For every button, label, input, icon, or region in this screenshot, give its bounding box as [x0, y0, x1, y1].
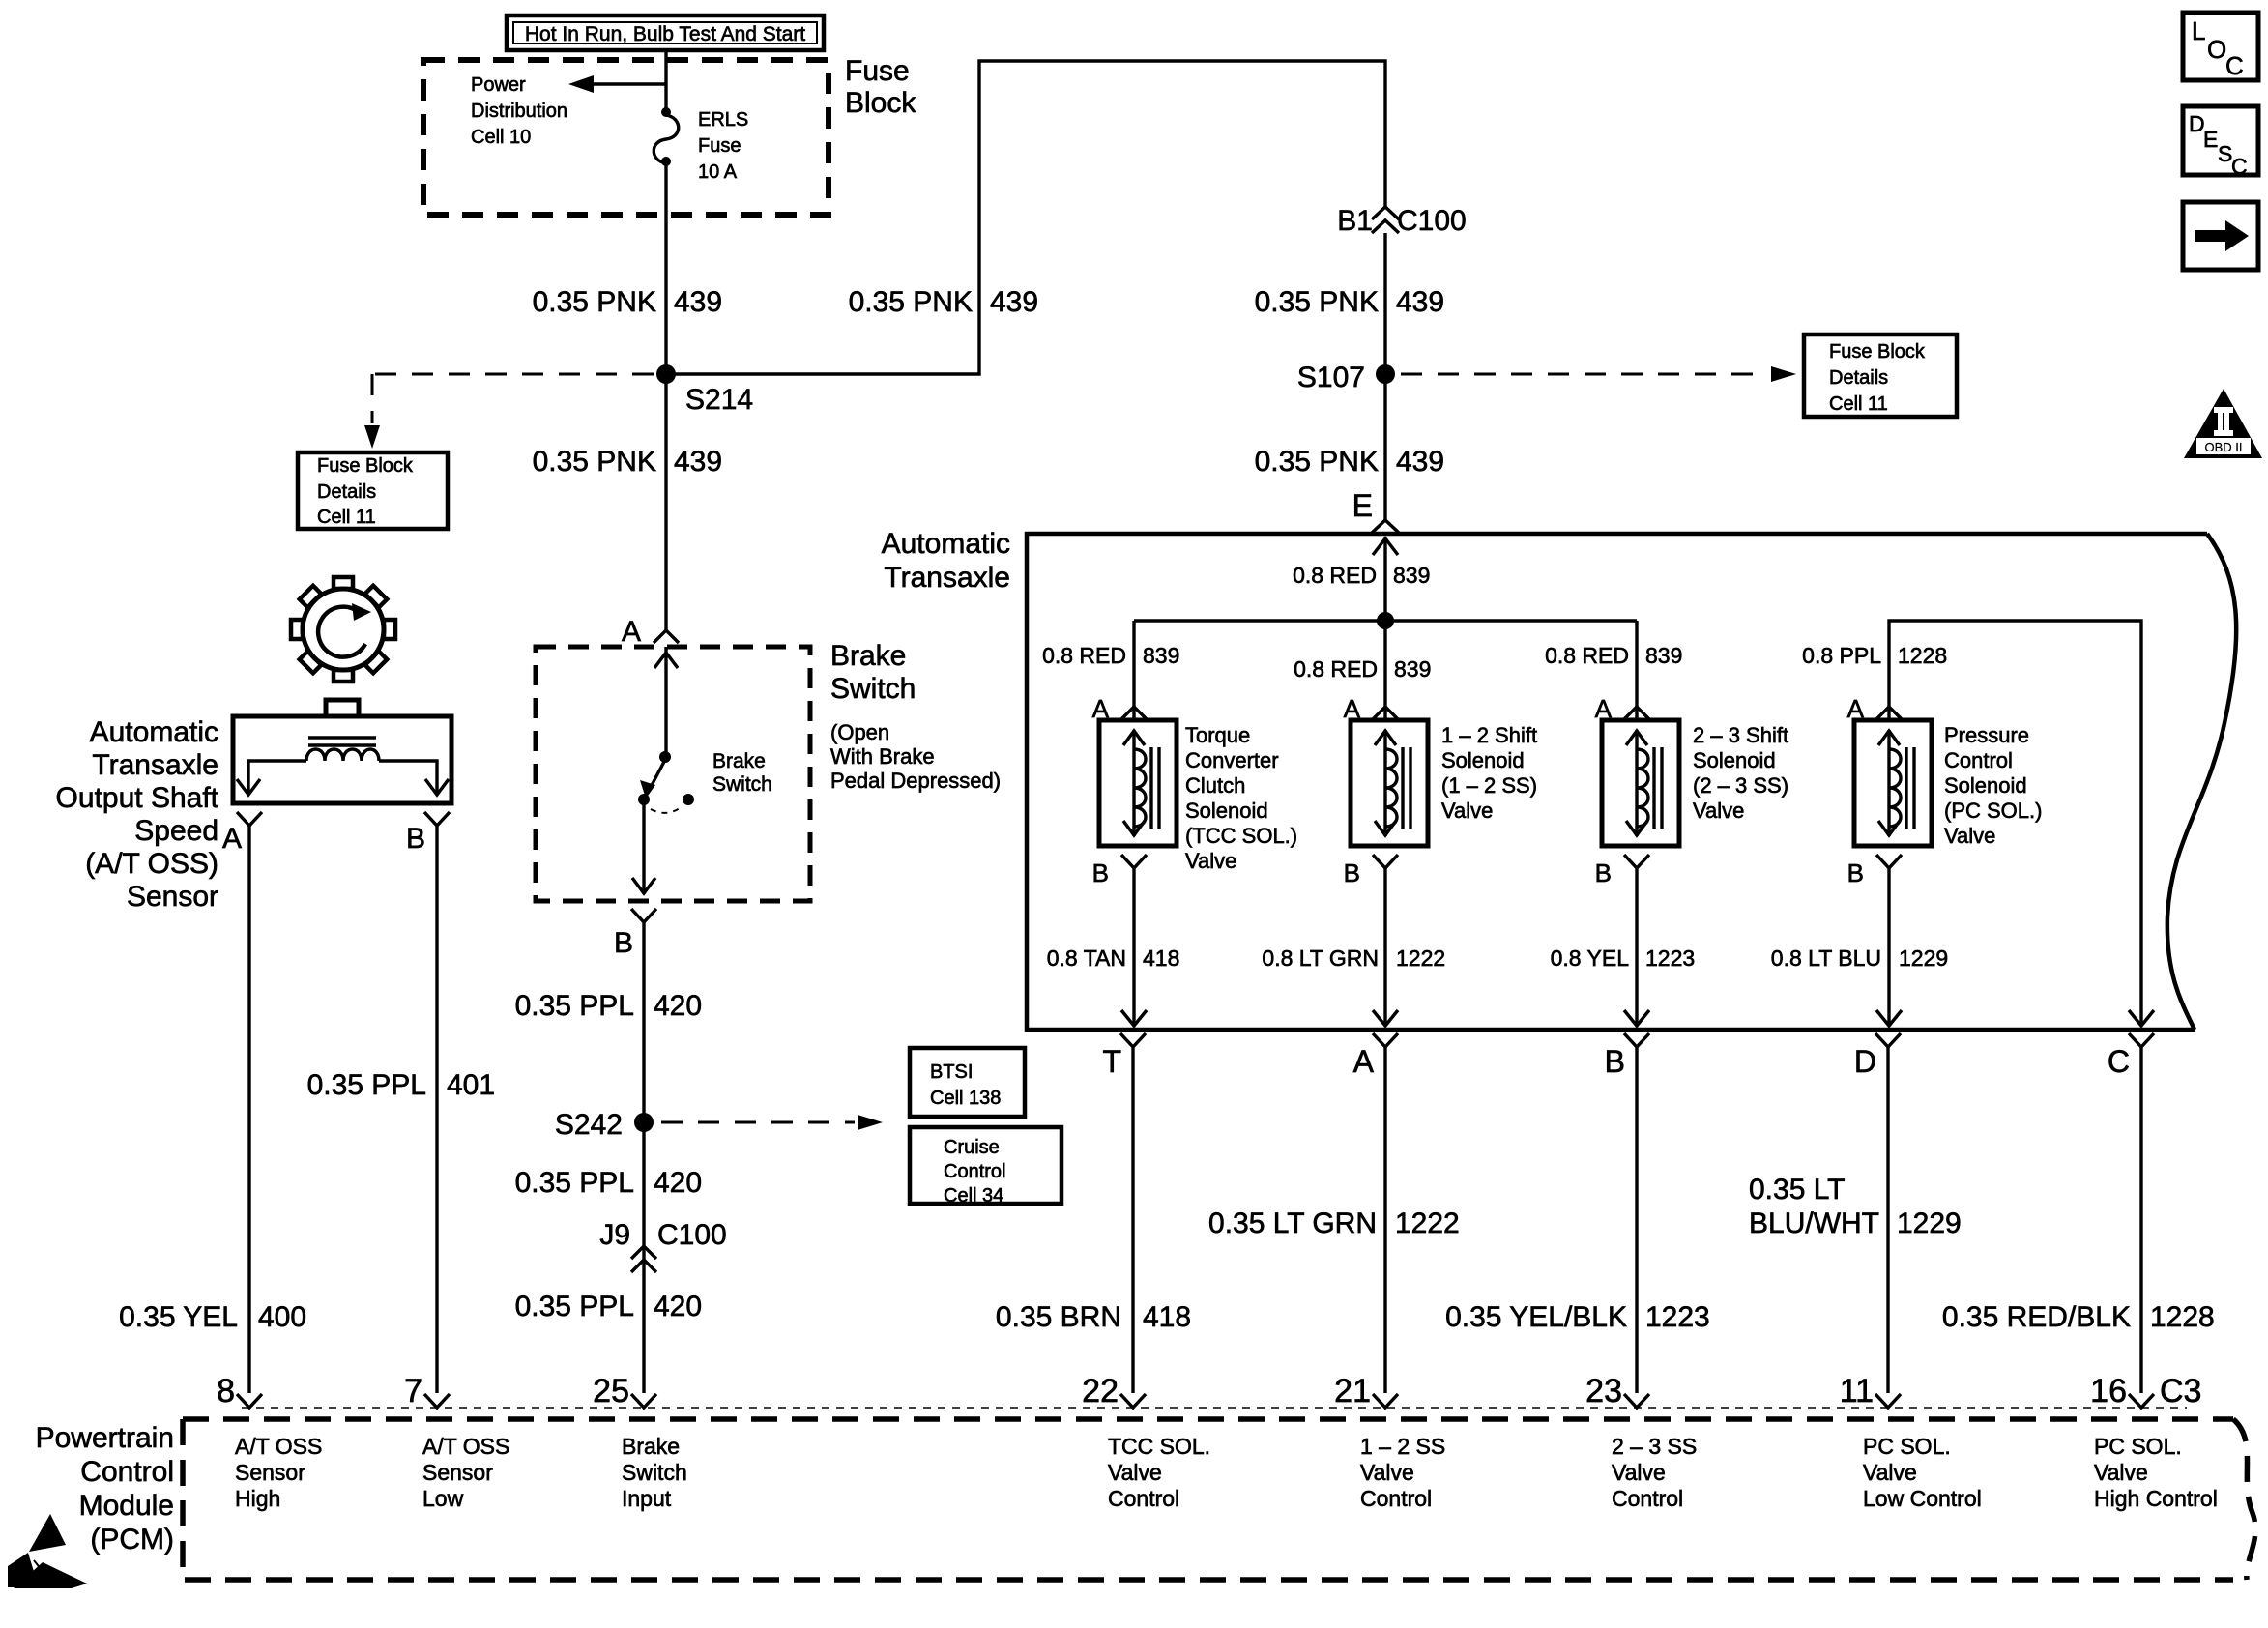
- svg-text:Block: Block: [845, 87, 916, 119]
- label: 0.8 RED 839 (TCC drop): [1042, 643, 1179, 668]
- svg-text:0.35 PNK: 0.35 PNK: [533, 446, 656, 478]
- connector: PCM pin 25: [593, 1373, 656, 1410]
- svg-text:0.35 BRN: 0.35 BRN: [996, 1301, 1121, 1333]
- svg-text:0.35 YEL: 0.35 YEL: [119, 1301, 238, 1333]
- svg-text:High Control: High Control: [2094, 1486, 2218, 1511]
- label: 0.35 PNK 439 (left, upper): [533, 286, 722, 318]
- connector: case pin D: [1854, 1033, 1901, 1079]
- connector: case pin A: [1353, 1033, 1398, 1079]
- svg-text:420: 420: [654, 1291, 702, 1323]
- connector: PCM pin 22: [1082, 1373, 1146, 1410]
- wire: 0.35 PNK 439 from S107 to transaxle pin E: [1383, 374, 1386, 520]
- automatic transaxle case (box with torn right edge): [1027, 534, 2236, 1030]
- label: 0.8 YEL 1223: [1551, 945, 1696, 971]
- label: Brake Switch: [830, 640, 916, 705]
- wire: C to PCM pin 16: [2139, 1047, 2142, 1393]
- label: 0.35 PNK 439 (branch): [849, 286, 1038, 318]
- label: ERLS Fuse 10 A: [698, 109, 748, 183]
- label: Automatic Transaxle Output Shaft Speed (A/T OSS) Sensor: [56, 716, 219, 913]
- wire: arrow into case pin C: [2129, 1010, 2154, 1026]
- label: 0.35 RED/BLK 1228: [1942, 1301, 2215, 1333]
- svg-text:Clutch: Clutch: [1185, 773, 1245, 798]
- node S107 (splice): [1297, 362, 1395, 393]
- connector: brake switch pin A: [622, 616, 679, 648]
- svg-text:A: A: [222, 823, 242, 855]
- svg-text:Transaxle: Transaxle: [884, 562, 1010, 594]
- label: Brake Switch (inner): [712, 750, 772, 796]
- connector pin E of automatic transaxle: [1352, 488, 1399, 533]
- svg-text:ERLS: ERLS: [698, 109, 748, 131]
- svg-text:B: B: [406, 823, 425, 855]
- svg-text:418: 418: [1143, 1301, 1191, 1333]
- label: 0.8 RED 839 (feed): [1293, 563, 1430, 588]
- svg-text:839: 839: [1143, 643, 1179, 668]
- switch: brake switch contacts: [638, 751, 694, 813]
- svg-text:0.35 PNK: 0.35 PNK: [1255, 446, 1379, 478]
- svg-text:Valve: Valve: [1944, 824, 1995, 848]
- svg-text:2 – 3 SS: 2 – 3 SS: [1612, 1434, 1697, 1459]
- connector: PCM pin 11: [1840, 1373, 1901, 1410]
- svg-text:Cell 34: Cell 34: [944, 1185, 1003, 1206]
- wire: drop to 2-3 shift solenoid pin A: [1635, 621, 1638, 719]
- wire: 0.35 PNK 439 from C100 to S107: [1383, 233, 1386, 374]
- svg-text:O: O: [2207, 35, 2226, 64]
- svg-text:0.8 PPL: 0.8 PPL: [1802, 643, 1881, 668]
- svg-text:S107: S107: [1297, 362, 1365, 393]
- wire: into brake switch with arrow: [654, 647, 678, 762]
- svg-text:Switch: Switch: [622, 1460, 687, 1485]
- label: pin 22 function TCC SOL. Valve Control: [1108, 1434, 1210, 1511]
- svg-text:439: 439: [674, 286, 722, 318]
- svg-text:Fuse Block: Fuse Block: [317, 455, 414, 477]
- label: 0.35 LT GRN 1222: [1208, 1207, 1460, 1239]
- svg-text:Control: Control: [1360, 1486, 1432, 1511]
- connector C100 pin B1 (double chevron): [1337, 205, 1466, 237]
- svg-text:1 – 2 Shift: 1 – 2 Shift: [1441, 723, 1537, 747]
- svg-text:Valve: Valve: [1612, 1460, 1666, 1485]
- icon: forward arrow box: [2183, 202, 2258, 270]
- label box: BTSI Cell 138: [910, 1048, 1025, 1117]
- svg-text:400: 400: [258, 1301, 306, 1333]
- label: 0.8 PPL 1228 (PC drop): [1802, 643, 1947, 668]
- svg-text:D: D: [1854, 1044, 1876, 1079]
- dashed reference arrow from S242 to BTSI / Cruise: [661, 1115, 883, 1130]
- svg-text:Control: Control: [1108, 1486, 1179, 1511]
- svg-text:C100: C100: [657, 1219, 727, 1251]
- label: 0.35 PPL 420 (middle): [515, 1167, 703, 1199]
- label: 0.35 BRN 418: [996, 1301, 1191, 1333]
- svg-text:Cell 11: Cell 11: [317, 507, 376, 528]
- svg-text:0.8 YEL: 0.8 YEL: [1551, 945, 1630, 971]
- svg-text:Output Shaft: Output Shaft: [56, 782, 219, 814]
- icon: LOC box: [2183, 13, 2258, 80]
- wire: 0.35 YEL 400 sensor A to PCM pin 8: [247, 826, 250, 1393]
- label box: Fuse Block Details Cell 11 (right): [1804, 334, 1957, 417]
- svg-text:Solenoid: Solenoid: [1693, 748, 1776, 772]
- svg-text:0.35 PNK: 0.35 PNK: [533, 286, 656, 318]
- svg-text:C100: C100: [1397, 205, 1467, 237]
- svg-text:0.8 LT BLU: 0.8 LT BLU: [1771, 945, 1881, 971]
- node S242 (splice): [555, 1109, 654, 1141]
- svg-text:C3: C3: [2160, 1373, 2201, 1410]
- label: 0.35 PPL 401: [307, 1069, 496, 1101]
- wire: harness interface line at PCM: [242, 1407, 2187, 1409]
- svg-text:Solenoid: Solenoid: [1944, 773, 2027, 798]
- svg-text:Solenoid: Solenoid: [1441, 748, 1525, 772]
- label: pin 16 function PC SOL. Valve High Control: [2094, 1434, 2218, 1511]
- brake switch housing (dashed box): [536, 647, 810, 901]
- svg-text:Valve: Valve: [1693, 799, 1744, 823]
- wire: 0.8 YEL 1223 solenoid to case pin B: [1624, 868, 1649, 1026]
- svg-text:OBD II: OBD II: [2204, 440, 2242, 454]
- svg-text:8: 8: [217, 1373, 235, 1410]
- svg-text:0.8 TAN: 0.8 TAN: [1047, 945, 1126, 971]
- connector: PCM pin 21: [1334, 1373, 1398, 1410]
- wire: drop to 1-2 shift solenoid pin A: [1383, 621, 1386, 719]
- svg-text:1229: 1229: [1899, 945, 1948, 971]
- node S214 (splice): [656, 364, 753, 416]
- svg-text:16: 16: [2090, 1373, 2127, 1410]
- svg-text:420: 420: [654, 990, 702, 1022]
- label box: Cruise Control Cell 34: [910, 1127, 1061, 1206]
- svg-text:0.8 LT GRN: 0.8 LT GRN: [1262, 945, 1379, 971]
- wire: feed from Hot bus into fuse: [664, 50, 667, 111]
- svg-text:439: 439: [1396, 446, 1444, 478]
- svg-text:B: B: [1605, 1044, 1625, 1079]
- svg-text:Automatic: Automatic: [882, 528, 1010, 560]
- icon: ESD static-sensitive symbol: [8, 1514, 87, 1588]
- wire: 0.35 PPL 420 brake switch to PCM pin 25: [642, 922, 645, 1393]
- svg-text:Speed: Speed: [134, 815, 218, 847]
- label: pin 11 function PC SOL. Valve Low Control: [1863, 1434, 1982, 1511]
- svg-text:TCC SOL.: TCC SOL.: [1108, 1434, 1210, 1459]
- wire: 0.35 PNK 439 from fuse to S214: [664, 161, 667, 374]
- svg-text:Valve: Valve: [2094, 1460, 2148, 1485]
- svg-text:Valve: Valve: [1360, 1460, 1414, 1485]
- svg-text:Valve: Valve: [1185, 849, 1236, 873]
- svg-text:401: 401: [447, 1069, 495, 1101]
- svg-text:Fuse: Fuse: [698, 135, 741, 157]
- svg-text:(1 – 2 SS): (1 – 2 SS): [1441, 773, 1537, 798]
- dashed reference arrow from S214 to Fuse Block Details: [364, 374, 654, 449]
- svg-text:C: C: [2225, 51, 2244, 80]
- svg-text:Automatic: Automatic: [90, 716, 218, 748]
- label: 0.8 LT GRN 1222: [1262, 945, 1445, 971]
- svg-text:25: 25: [593, 1373, 629, 1410]
- wire: drop to TCC solenoid pin A: [1132, 621, 1135, 719]
- svg-text:T: T: [1102, 1044, 1121, 1079]
- icon: OBD II symbol: [2184, 389, 2262, 458]
- svg-text:Torque: Torque: [1185, 723, 1250, 747]
- svg-text:439: 439: [990, 286, 1038, 318]
- connector: PCM pin 8: [217, 1373, 262, 1410]
- svg-text:Control: Control: [944, 1161, 1005, 1182]
- svg-text:0.8 RED: 0.8 RED: [1294, 656, 1378, 682]
- label: TCC solenoid name: [1185, 723, 1297, 873]
- svg-text:Details: Details: [317, 481, 376, 503]
- label box: Hot In Run, Bulb Test And Start: [507, 15, 824, 50]
- svg-text:Valve: Valve: [1108, 1460, 1162, 1485]
- svg-text:839: 839: [1645, 643, 1682, 668]
- svg-text:7: 7: [404, 1373, 422, 1410]
- wire: D to PCM pin 11: [1886, 1047, 1889, 1393]
- svg-text:Switch: Switch: [830, 673, 916, 705]
- wire: 0.35 PPL 401 sensor B to PCM pin 7: [435, 826, 438, 1393]
- solenoid: 2-3 Shift Solenoid (2-3 SS) Valve: [1595, 694, 1679, 887]
- svg-text:B: B: [1847, 858, 1864, 887]
- svg-text:0.8 RED: 0.8 RED: [1042, 643, 1126, 668]
- svg-text:C: C: [2231, 154, 2248, 179]
- svg-text:1223: 1223: [1645, 1301, 1710, 1333]
- svg-text:2 – 3 Shift: 2 – 3 Shift: [1693, 723, 1788, 747]
- svg-text:1228: 1228: [1898, 643, 1947, 668]
- label: Power Distribution Cell 10: [471, 74, 567, 148]
- svg-text:L: L: [2192, 16, 2205, 45]
- label: PC solenoid name: [1944, 723, 2042, 848]
- label: Fuse Block: [845, 55, 916, 119]
- label: pin 7 function A/T OSS Sensor Low: [422, 1434, 509, 1511]
- wire: T to PCM pin 22: [1131, 1047, 1134, 1393]
- svg-text:439: 439: [674, 446, 722, 478]
- svg-text:Cell 138: Cell 138: [930, 1088, 1001, 1109]
- wire: 0.8 PPL 1228 loop from PC solenoid pin A to case pin C: [1889, 621, 2141, 1026]
- svg-text:(PC SOL.): (PC SOL.): [1944, 799, 2042, 823]
- svg-text:Valve: Valve: [1863, 1460, 1917, 1485]
- connector: sensor pin B: [406, 812, 450, 855]
- svg-text:23: 23: [1585, 1373, 1622, 1410]
- connector C100 pin J9 (double chevron): [599, 1219, 726, 1272]
- connector: brake switch pin B: [614, 909, 656, 959]
- label: (Open With Brake Pedal Depressed): [830, 720, 1001, 793]
- svg-text:High: High: [235, 1486, 280, 1511]
- svg-text:0.35 PNK: 0.35 PNK: [849, 286, 973, 318]
- svg-text:839: 839: [1394, 656, 1431, 682]
- svg-text:J9: J9: [599, 1219, 630, 1251]
- connector: PCM pin 16 / C3: [2090, 1373, 2201, 1410]
- solenoid: Torque Converter Clutch Solenoid (TCC SOL.) Valve: [1092, 694, 1177, 887]
- svg-text:A/T OSS: A/T OSS: [235, 1434, 322, 1459]
- label: 0.35 YEL/BLK 1223: [1445, 1301, 1710, 1333]
- svg-text:Transaxle: Transaxle: [92, 749, 218, 781]
- svg-text:Pedal Depressed): Pedal Depressed): [830, 769, 1001, 793]
- svg-text:PC SOL.: PC SOL.: [2094, 1434, 2182, 1459]
- svg-text:0.8 RED: 0.8 RED: [1293, 563, 1377, 588]
- svg-text:B1: B1: [1337, 205, 1373, 237]
- svg-text:B: B: [1344, 858, 1360, 887]
- connector: PCM pin 7: [404, 1373, 450, 1410]
- svg-text:A: A: [622, 616, 641, 648]
- wire: A to PCM pin 21: [1383, 1047, 1386, 1393]
- svg-text:Brake: Brake: [830, 640, 906, 672]
- svg-text:0.35 LT GRN: 0.35 LT GRN: [1208, 1207, 1377, 1239]
- svg-text:Control: Control: [80, 1456, 174, 1488]
- svg-text:1222: 1222: [1395, 1207, 1460, 1239]
- svg-text:1223: 1223: [1645, 945, 1695, 971]
- svg-text:Brake: Brake: [622, 1434, 680, 1459]
- label: 0.35 PPL 420 (lower): [515, 1291, 703, 1323]
- label: pin 21 function 1-2 SS Valve Control: [1360, 1434, 1445, 1511]
- svg-text:B: B: [1092, 858, 1109, 887]
- svg-text:(PCM): (PCM): [90, 1524, 174, 1555]
- svg-text:21: 21: [1334, 1373, 1371, 1410]
- label: 0.8 RED 839 (2-3 drop): [1545, 643, 1682, 668]
- svg-text:Distribution: Distribution: [471, 101, 567, 122]
- label: Powertrain Control Module (PCM): [36, 1422, 174, 1555]
- svg-text:0.8 RED: 0.8 RED: [1545, 643, 1629, 668]
- svg-text:With Brake: With Brake: [830, 744, 935, 769]
- svg-text:Sensor: Sensor: [127, 881, 218, 913]
- label: pin 25 function Brake Switch Input: [622, 1434, 687, 1511]
- label: 0.35 PNK 439 (right, lower): [1255, 446, 1444, 478]
- icon: reluctor gear wheel: [291, 577, 395, 682]
- dashed reference arrow from S107 to Fuse Block Details: [1401, 366, 1796, 382]
- svg-text:(A/T OSS): (A/T OSS): [85, 848, 218, 880]
- svg-text:BLU/WHT: BLU/WHT: [1749, 1207, 1879, 1239]
- label: pin 8 function A/T OSS Sensor High: [235, 1434, 322, 1511]
- svg-text:Control: Control: [1944, 748, 2013, 772]
- svg-text:A: A: [1353, 1044, 1375, 1079]
- svg-text:0.35 RED/BLK: 0.35 RED/BLK: [1942, 1301, 2131, 1333]
- svg-text:BTSI: BTSI: [930, 1061, 973, 1083]
- svg-text:0.35 PPL: 0.35 PPL: [515, 1291, 634, 1323]
- label: 0.35 PNK 439 (left, lower): [533, 446, 722, 478]
- wire: red distribution bus: [1134, 619, 1637, 622]
- svg-text:Cruise: Cruise: [944, 1137, 1000, 1158]
- svg-text:Solenoid: Solenoid: [1185, 799, 1268, 823]
- svg-text:Low: Low: [422, 1486, 464, 1511]
- label: 0.8 LT BLU 1229: [1771, 945, 1948, 971]
- wire: 0.8 RED 839 feed inside transaxle with arrow: [1373, 537, 1398, 621]
- svg-text:Power: Power: [471, 74, 526, 96]
- connector: sensor pin A: [222, 812, 262, 855]
- solenoid: Pressure Control Solenoid (PC SOL.) Valve: [1847, 694, 1932, 887]
- connector: case pin C: [2108, 1033, 2154, 1079]
- fuse block F1 (dashed box): [423, 60, 829, 215]
- label: 1-2 shift solenoid name: [1441, 723, 1537, 823]
- svg-text:11: 11: [1840, 1373, 1874, 1410]
- svg-text:1 – 2 SS: 1 – 2 SS: [1360, 1434, 1445, 1459]
- node: solenoid feed junction: [1377, 612, 1394, 629]
- svg-text:1228: 1228: [2150, 1301, 2215, 1333]
- svg-text:Low Control: Low Control: [1863, 1486, 1982, 1511]
- solenoid: 1-2 Shift Solenoid (1-2 SS) Valve: [1344, 694, 1428, 887]
- wire: 0.8 TAN 418 TCC solenoid to case pin T: [1121, 868, 1147, 1026]
- svg-text:PC SOL.: PC SOL.: [1863, 1434, 1951, 1459]
- svg-text:0.35 PPL: 0.35 PPL: [515, 1167, 634, 1199]
- svg-text:Cell 11: Cell 11: [1829, 393, 1888, 415]
- svg-text:Details: Details: [1829, 367, 1888, 389]
- svg-text:439: 439: [1396, 286, 1444, 318]
- connector: PCM pin 23: [1585, 1373, 1649, 1410]
- svg-text:Switch: Switch: [712, 773, 772, 796]
- wire: power distribution tap with arrow: [568, 75, 666, 93]
- label: 0.35 PPL 420 (upper): [515, 990, 703, 1022]
- svg-text:Control: Control: [1612, 1486, 1683, 1511]
- wire: B to PCM pin 23: [1635, 1047, 1638, 1393]
- svg-text:22: 22: [1082, 1373, 1119, 1410]
- svg-text:S242: S242: [555, 1109, 623, 1141]
- svg-text:1229: 1229: [1897, 1207, 1962, 1239]
- svg-text:Cell 10: Cell 10: [471, 127, 531, 148]
- svg-text:B: B: [614, 927, 633, 959]
- svg-text:Valve: Valve: [1441, 799, 1493, 823]
- sensor: A/T OSS sensor body: [233, 700, 451, 803]
- fuse ERLS 10A: [654, 107, 679, 166]
- svg-text:A/T OSS: A/T OSS: [422, 1434, 509, 1459]
- label: 0.8 RED 839 (1-2 drop): [1294, 656, 1431, 682]
- label: 0.8 TAN 418: [1047, 945, 1180, 971]
- label: 0.35 PNK 439 (right, upper): [1255, 286, 1444, 318]
- svg-text:10 A: 10 A: [698, 161, 738, 183]
- svg-text:0.35 YEL/BLK: 0.35 YEL/BLK: [1445, 1301, 1627, 1333]
- connector: case pin B: [1605, 1033, 1649, 1079]
- wire: 0.8 LT BLU 1229 solenoid to case pin D: [1876, 868, 1902, 1026]
- svg-text:0.35 PNK: 0.35 PNK: [1255, 286, 1379, 318]
- svg-text:E: E: [2203, 127, 2218, 152]
- label: 2-3 shift solenoid name: [1693, 723, 1788, 823]
- svg-text:Input: Input: [622, 1486, 672, 1511]
- connector: case pin T: [1102, 1033, 1146, 1079]
- svg-text:Fuse: Fuse: [845, 55, 910, 87]
- svg-text:1222: 1222: [1396, 945, 1445, 971]
- svg-text:0.35 PPL: 0.35 PPL: [307, 1069, 426, 1101]
- wire: 0.8 LT GRN 1222 solenoid to case pin A: [1373, 868, 1398, 1026]
- svg-text:B: B: [1595, 858, 1612, 887]
- svg-text:Hot In Run, Bulb Test And Star: Hot In Run, Bulb Test And Start: [525, 23, 805, 45]
- svg-text:839: 839: [1393, 563, 1430, 588]
- label: 0.35 YEL 400: [119, 1301, 306, 1333]
- svg-text:Brake: Brake: [712, 750, 766, 772]
- svg-text:420: 420: [654, 1167, 702, 1199]
- label: pin 23 function 2-3 SS Valve Control: [1612, 1434, 1697, 1511]
- svg-text:Sensor: Sensor: [422, 1460, 493, 1485]
- label box: Fuse Block Details Cell 11 (left): [298, 452, 448, 529]
- svg-text:E: E: [1352, 488, 1373, 523]
- svg-text:0.35 LT: 0.35 LT: [1749, 1174, 1846, 1206]
- svg-text:S214: S214: [685, 384, 753, 416]
- wire: switch to pin B with arrow: [632, 799, 655, 894]
- svg-text:Converter: Converter: [1185, 748, 1279, 772]
- svg-text:0.35 PPL: 0.35 PPL: [515, 990, 634, 1022]
- svg-text:Module: Module: [79, 1490, 174, 1522]
- svg-text:C: C: [2108, 1044, 2130, 1079]
- module: Powertrain Control Module (PCM) dashed box: [183, 1419, 2255, 1580]
- svg-text:(Open: (Open: [830, 720, 889, 744]
- label: 0.35 LT BLU/WHT 1229: [1749, 1174, 1962, 1239]
- svg-text:Powertrain: Powertrain: [36, 1422, 174, 1454]
- svg-text:Pressure: Pressure: [1944, 723, 2029, 747]
- svg-text:418: 418: [1143, 945, 1179, 971]
- wire: S214 down to brake switch pin A: [664, 374, 667, 630]
- svg-text:(2 – 3 SS): (2 – 3 SS): [1693, 773, 1788, 798]
- wire: branch S214 right and up to C100: [666, 61, 1385, 374]
- svg-text:Fuse Block: Fuse Block: [1829, 341, 1926, 363]
- icon: DESC box: [2183, 106, 2258, 179]
- svg-text:(TCC SOL.): (TCC SOL.): [1185, 824, 1297, 848]
- label: Automatic Transaxle: [882, 528, 1010, 594]
- svg-text:Sensor: Sensor: [235, 1460, 305, 1485]
